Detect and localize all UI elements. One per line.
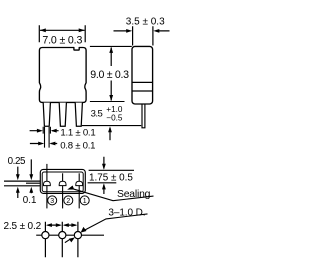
top view inner outline xyxy=(42,172,83,192)
svg-text:0.8 ± 0.1: 0.8 ± 0.1 xyxy=(60,140,95,151)
top view pin line 2 xyxy=(62,173,64,208)
arrow at hole 3 lower-left xyxy=(65,239,70,242)
hole 1 xyxy=(74,232,81,239)
top view pin line 3 xyxy=(78,173,80,208)
dim 2.5 arrows xyxy=(48,224,76,226)
hole 2 xyxy=(59,232,66,239)
dim 0.25 arrows (down) xyxy=(18,159,32,174)
svg-text:3–1.0 D.: 3–1.0 D. xyxy=(108,208,145,219)
hole 3 xyxy=(42,232,49,239)
svg-text:3.5 ± 0.3: 3.5 ± 0.3 xyxy=(126,17,165,28)
svg-text:1.75 ± 0.5: 1.75 ± 0.5 xyxy=(89,173,133,184)
pin number 1 xyxy=(80,196,89,205)
svg-text:3: 3 xyxy=(50,198,54,205)
side view lead xyxy=(142,104,145,128)
pin number 3 xyxy=(48,196,57,205)
dim 3.5 top extension lines xyxy=(133,26,153,45)
top view outer outline xyxy=(40,169,85,193)
top view pad 1 xyxy=(76,181,83,185)
dim 7.0 extension lines xyxy=(39,25,85,42)
dim 7.0 line xyxy=(40,29,85,31)
front lead 1 xyxy=(43,103,50,127)
lead stub lines left xyxy=(4,181,41,186)
dim 9.0 top extension line xyxy=(90,45,132,47)
svg-text:+1.0: +1.0 xyxy=(106,105,123,114)
svg-text:0.1: 0.1 xyxy=(23,195,37,206)
dim arrows (up) xyxy=(18,193,32,199)
front view package body xyxy=(39,48,86,103)
front lead 2 xyxy=(59,103,66,127)
dim 1.1 extension lines xyxy=(43,127,50,134)
top view pad 2 xyxy=(59,181,66,185)
pin number 2 xyxy=(64,196,73,205)
svg-text:9.0 ± 0.3: 9.0 ± 0.3 xyxy=(90,69,129,81)
svg-text:Sealing: Sealing xyxy=(117,189,151,200)
dim 3.5 top arrows xyxy=(114,30,170,32)
dim lead length extension line xyxy=(82,125,141,127)
top view pad 3 xyxy=(43,181,50,185)
svg-text:1: 1 xyxy=(83,198,87,205)
svg-text:7.0 ± 0.3: 7.0 ± 0.3 xyxy=(42,34,82,46)
bottom view hole axes xyxy=(45,222,78,257)
dim 1.75 lines xyxy=(88,170,134,183)
sealing leader arrow xyxy=(73,189,154,201)
dim 0.8 extension lines xyxy=(45,127,50,148)
dim lead length arrow xyxy=(109,128,111,140)
svg-text:−0.5: −0.5 xyxy=(106,114,123,123)
top view pin line 1 xyxy=(46,164,48,209)
side view band line 2 xyxy=(132,90,153,92)
dim 1.75 arrows xyxy=(103,157,105,194)
dim 0.8 arrows xyxy=(30,143,57,145)
svg-text:2: 2 xyxy=(66,198,70,205)
side view body xyxy=(132,46,153,104)
bottom view center line xyxy=(36,234,104,236)
front lead 3 xyxy=(75,103,82,127)
svg-text:1.1 ± 0.1: 1.1 ± 0.1 xyxy=(60,127,95,138)
side view band line 1 xyxy=(132,81,153,83)
svg-text:2.5 ± 0.2: 2.5 ± 0.2 xyxy=(4,221,42,232)
dim 9.0 bottom extension line xyxy=(90,101,125,103)
svg-text:0.25: 0.25 xyxy=(8,156,26,167)
svg-text:3.5: 3.5 xyxy=(91,108,103,119)
dim 9.0 arrow xyxy=(110,48,112,101)
dim 1.1 arrows xyxy=(30,130,59,132)
